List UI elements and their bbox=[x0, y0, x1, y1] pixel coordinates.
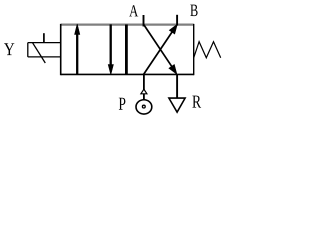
valve body (two-position box) bbox=[61, 24, 194, 75]
solenoid diagonal stroke bbox=[33, 43, 46, 63]
wire: P triangle to source circle bbox=[143, 94, 145, 100]
crossed flow path A to R with arrowhead (right square) bbox=[144, 24, 177, 74]
port P line bbox=[143, 74, 145, 90]
port B stub bbox=[176, 15, 178, 26]
arrow down (left square, flow path) bbox=[108, 24, 113, 74]
solenoid electrical lead bbox=[43, 33, 45, 42]
crossed flow path P to B with arrowhead (right square) bbox=[144, 24, 178, 74]
spring return (right side) bbox=[194, 42, 221, 58]
label Y bbox=[4, 43, 14, 55]
wire: valve right edge bbox=[193, 24, 195, 75]
port R line bbox=[176, 74, 178, 98]
label A bbox=[129, 5, 138, 16]
pressure source circle bbox=[136, 100, 152, 114]
port A stub bbox=[143, 15, 145, 27]
port P small open triangle bbox=[141, 89, 147, 94]
wire: valve left edge bbox=[60, 24, 62, 75]
pressure source centre dot bbox=[142, 105, 145, 108]
label B bbox=[190, 5, 197, 17]
arrow up (left square, flow path) bbox=[75, 24, 80, 75]
label P bbox=[119, 98, 126, 110]
wire: valve top edge bbox=[61, 24, 194, 26]
solenoid Y box bbox=[28, 43, 61, 63]
wire: centre divider between positions bbox=[125, 25, 128, 75]
wire: valve bottom edge bbox=[61, 73, 194, 75]
exhaust triangle R bbox=[169, 98, 185, 112]
label R bbox=[192, 96, 201, 108]
